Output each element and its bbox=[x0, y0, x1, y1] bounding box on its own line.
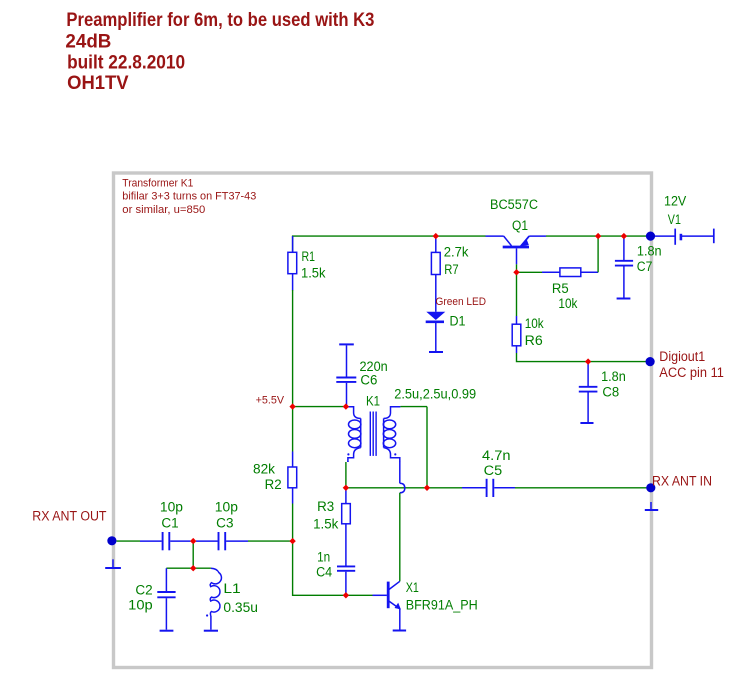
wire top rail right (Q1 to 12V port) bbox=[546, 235, 647, 237]
wire base junction down to R6 bbox=[516, 272, 518, 316]
svg-text:10k: 10k bbox=[525, 316, 544, 331]
wire hop (secondary bottom over mid rail) bbox=[400, 461, 405, 493]
node C1/C3 bbox=[190, 538, 196, 544]
svg-text:ACC pin 11: ACC pin 11 bbox=[659, 365, 724, 380]
svg-text:Preamplifier for 6m, to be use: Preamplifier for 6m, to be used with K3 bbox=[66, 9, 374, 31]
svg-text:built 22.8.2010: built 22.8.2010 bbox=[67, 52, 185, 74]
svg-text:2.7k: 2.7k bbox=[444, 245, 469, 260]
svg-text:BFR91A_PH: BFR91A_PH bbox=[406, 598, 478, 613]
ground (L1) bbox=[204, 630, 218, 632]
wire base stub to X1 bbox=[373, 594, 387, 596]
node Q1 base bbox=[513, 269, 519, 275]
node R7 top bbox=[433, 233, 439, 239]
svg-text:1.5k: 1.5k bbox=[301, 265, 326, 280]
svg-text:C8: C8 bbox=[602, 385, 619, 400]
capacitor C4 bbox=[316, 550, 355, 596]
svg-text:or similar, u=850: or similar, u=850 bbox=[122, 204, 205, 216]
svg-text:C3: C3 bbox=[216, 516, 233, 531]
node C8 top bbox=[585, 358, 591, 364]
wire mid rail (junction to C5) bbox=[346, 487, 462, 489]
title block bbox=[65, 9, 374, 94]
resistor R5 bbox=[542, 268, 598, 311]
inductor L1 bbox=[206, 568, 258, 629]
node R3 top bbox=[343, 485, 349, 491]
node +5.5V left bbox=[289, 403, 295, 409]
ground (RX ANT IN port) bbox=[645, 502, 658, 510]
svg-text:R7: R7 bbox=[444, 262, 458, 277]
svg-text:Q1: Q1 bbox=[512, 218, 528, 233]
svg-text:1.8n: 1.8n bbox=[637, 244, 662, 259]
svg-text:10p: 10p bbox=[128, 598, 153, 613]
wire secondary vertical down bbox=[426, 407, 428, 488]
svg-text:L1: L1 bbox=[223, 581, 240, 596]
port 12V bbox=[646, 232, 655, 241]
svg-text:1.5k: 1.5k bbox=[313, 516, 338, 531]
svg-text:K1: K1 bbox=[366, 393, 380, 408]
svg-text:RX ANT IN: RX ANT IN bbox=[652, 474, 712, 489]
svg-text:Green LED: Green LED bbox=[436, 296, 487, 308]
port RX ANT OUT bbox=[107, 536, 116, 545]
svg-text:10p: 10p bbox=[215, 500, 238, 515]
node C7 top bbox=[621, 233, 627, 239]
resistor R7 bbox=[431, 236, 468, 312]
wire left rail (R1 bottom to R2 top) bbox=[292, 290, 294, 452]
svg-text:BC557C: BC557C bbox=[490, 197, 538, 212]
capacitor C5 bbox=[462, 448, 515, 497]
resistor R2 bbox=[253, 452, 297, 504]
resistor R1 bbox=[288, 236, 326, 290]
ground (X1 emitter) bbox=[393, 630, 406, 632]
svg-text:10k: 10k bbox=[558, 296, 577, 311]
svg-text:bifilar 3+3 turns on FT37-43: bifilar 3+3 turns on FT37-43 bbox=[122, 191, 256, 203]
transformer core bbox=[369, 412, 371, 456]
svg-text:0.35u: 0.35u bbox=[223, 600, 258, 615]
svg-text:12V: 12V bbox=[664, 193, 686, 208]
wire secondary top to vertical bbox=[400, 406, 427, 408]
wire primary bottom to junction bbox=[347, 461, 349, 462]
capacitor C3 bbox=[196, 500, 248, 551]
svg-text:4.7n: 4.7n bbox=[482, 448, 511, 463]
schematic frame bbox=[114, 173, 652, 668]
wire Q1 base to junction bbox=[516, 264, 518, 272]
LED D1 bbox=[426, 312, 466, 351]
note: transformer K1 description bbox=[122, 177, 256, 216]
svg-text:D1: D1 bbox=[450, 313, 466, 328]
secondary winding bbox=[384, 407, 401, 419]
transformer K1 bbox=[346, 387, 476, 463]
ground (C2) bbox=[160, 630, 174, 632]
wire R6 bottom to Digiout port bbox=[517, 353, 648, 362]
wire RX ANT OUT to C1 bbox=[117, 540, 141, 542]
battery V1 bbox=[655, 229, 714, 245]
node C3 right rail bbox=[289, 538, 295, 544]
svg-text:+5.5V: +5.5V bbox=[256, 394, 285, 406]
wire C2/L1 row bbox=[166, 567, 211, 569]
svg-text:OH1TV: OH1TV bbox=[67, 72, 129, 94]
port Digiout1 bbox=[646, 357, 655, 366]
node C2/L1 bbox=[190, 565, 196, 571]
ground (C7) bbox=[617, 298, 631, 300]
wire X1 collector vertical bbox=[399, 493, 401, 582]
wire C5 to RX ANT IN port bbox=[515, 487, 647, 489]
svg-text:Transformer K1: Transformer K1 bbox=[122, 177, 193, 189]
svg-text:R2: R2 bbox=[265, 477, 282, 492]
capacitor C6 bbox=[336, 345, 387, 406]
ground (RX ANT OUT port) bbox=[105, 559, 121, 568]
svg-text:C5: C5 bbox=[484, 463, 503, 478]
svg-text:C2: C2 bbox=[135, 582, 152, 597]
ground (above C6) bbox=[339, 343, 354, 345]
capacitor C2 bbox=[128, 568, 175, 630]
capacitor C8 bbox=[579, 362, 626, 422]
capacitor C1 bbox=[140, 500, 191, 551]
svg-text:1n: 1n bbox=[317, 550, 330, 565]
wire +5.5V rail bbox=[293, 406, 346, 408]
primary winding bbox=[346, 407, 361, 419]
svg-text:C7: C7 bbox=[637, 259, 653, 274]
resistor R3 bbox=[313, 488, 350, 566]
node R5 top bbox=[595, 233, 601, 239]
svg-text:RX ANT OUT: RX ANT OUT bbox=[32, 508, 106, 523]
svg-text:82k: 82k bbox=[253, 461, 275, 476]
svg-text:C6: C6 bbox=[360, 373, 377, 388]
node C6 bottom bbox=[343, 403, 349, 409]
node secondary top rail bbox=[424, 485, 430, 491]
node junction dots bbox=[190, 233, 627, 599]
svg-text:X1: X1 bbox=[406, 580, 419, 595]
ground (C8) bbox=[580, 422, 593, 424]
resistor R6 bbox=[512, 316, 544, 353]
wire C3 to left rail bbox=[248, 540, 293, 542]
svg-text:R5: R5 bbox=[552, 281, 569, 296]
svg-text:C1: C1 bbox=[161, 516, 178, 531]
wire C1/C3 junction down bbox=[192, 541, 194, 568]
wire top rail left (R1 top to Q1) bbox=[293, 236, 486, 252]
wire R5 right up to top rail bbox=[597, 236, 599, 272]
capacitor C7 bbox=[615, 236, 662, 297]
transistor Q1 bbox=[486, 197, 547, 264]
wire left rail (R2 bottom to base rail corner) bbox=[293, 504, 373, 596]
svg-text:Digiout1: Digiout1 bbox=[659, 349, 705, 364]
wire base junction to R5 bbox=[517, 271, 543, 273]
svg-text:R1: R1 bbox=[302, 249, 316, 264]
port RX ANT IN bbox=[646, 483, 655, 492]
svg-text:10p: 10p bbox=[160, 500, 183, 515]
svg-text:R6: R6 bbox=[525, 333, 543, 348]
svg-text:C4: C4 bbox=[316, 565, 333, 580]
transistor X1 bbox=[388, 580, 478, 630]
ground (D1) bbox=[429, 351, 443, 353]
svg-text:24dB: 24dB bbox=[65, 31, 111, 53]
svg-text:R3: R3 bbox=[317, 499, 334, 514]
svg-text:V1: V1 bbox=[668, 212, 681, 227]
svg-text:2.5u,2.5u,0.99: 2.5u,2.5u,0.99 bbox=[394, 387, 476, 402]
node C4 bottom bbox=[343, 592, 349, 598]
svg-text:1.8n: 1.8n bbox=[601, 369, 626, 384]
